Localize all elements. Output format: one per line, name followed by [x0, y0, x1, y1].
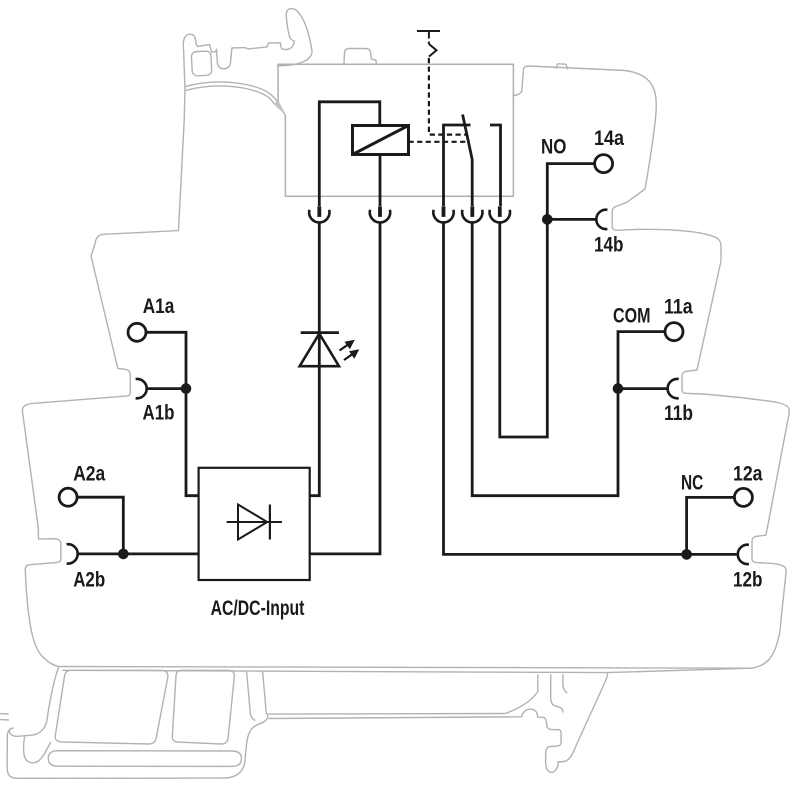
small tab on relay cover top	[344, 49, 376, 65]
DIN rail upper edge left stub	[0, 713, 8, 715]
socket pin 4	[470, 206, 474, 217]
socket arc 1	[309, 210, 329, 223]
wire A1 junction down to rectifier left	[186, 389, 199, 496]
wire A1a to A1 junction	[146, 332, 186, 388]
wire junction to 11b	[618, 387, 667, 390]
wire terminal 3 down to NC junction	[444, 223, 687, 555]
svg-text:11b: 11b	[664, 401, 693, 425]
LED triangle	[300, 334, 339, 367]
socket arc 3	[433, 210, 453, 223]
socket pin 5	[498, 206, 502, 217]
svg-text:A2a: A2a	[73, 462, 106, 486]
wire coil top to terminal pin 1	[319, 102, 380, 206]
terminal socket row	[309, 206, 510, 222]
svg-text:14b: 14b	[594, 233, 624, 257]
junction NO/14b	[542, 214, 553, 225]
wire terminal 2 down to rectifier right	[310, 223, 380, 554]
actuator stem	[428, 31, 430, 39]
left side: A1 tier top edge and side	[22, 231, 178, 667]
bottom block top edge lower line	[63, 670, 608, 672]
wire junction to 14b	[547, 218, 595, 221]
junction A2	[118, 549, 129, 560]
terminal A1b socket	[136, 379, 147, 398]
socket arc 4	[462, 210, 482, 223]
wire coil bottom to terminal pin 2	[379, 155, 382, 207]
DIN rail lower edge left stub	[0, 719, 9, 721]
foot slot 1	[55, 670, 168, 744]
terminal A2b socket	[67, 544, 78, 563]
svg-text:A1a: A1a	[143, 294, 175, 318]
wire 12a to NC junction	[687, 497, 735, 554]
svg-text:11a: 11a	[664, 294, 693, 318]
wire 14a to NO junction	[547, 164, 595, 220]
flange arch upper line	[185, 82, 276, 101]
foot slot 2	[172, 670, 234, 744]
foot hook pocket	[24, 737, 51, 763]
svg-text:12b: 12b	[733, 568, 763, 592]
terminal 12b socket	[738, 545, 749, 564]
relay coil K1	[353, 126, 409, 155]
socket pin 1	[317, 206, 321, 217]
mechanical linkage dashed line vertical	[429, 58, 466, 135]
svg-text:A1b: A1b	[143, 400, 175, 424]
wire terminal 5 down to NO junction	[500, 219, 548, 437]
terminal A2a	[59, 488, 77, 506]
small bump on lobe top	[556, 64, 568, 69]
junction A1	[181, 383, 192, 394]
terminal 14b socket	[596, 210, 607, 229]
top-right lobe of relay cover	[513, 66, 789, 673]
right clamp outer slant edge	[558, 672, 608, 762]
socket pin 3	[442, 206, 446, 217]
contact moving lever (COM)	[463, 115, 473, 207]
LED arrow 2	[344, 353, 355, 360]
terminal 14a	[595, 155, 613, 173]
foot long bottom slot	[48, 751, 241, 767]
DIN-rail foot left block outer contour	[7, 667, 267, 779]
manual test actuator symbol (top)	[417, 31, 440, 57]
relay socket body (gray box)	[278, 64, 513, 196]
contact NC fixed side	[444, 125, 471, 206]
svg-text:NO: NO	[541, 135, 566, 159]
mechanical linkage dashed line from coil	[409, 141, 468, 143]
wire 11a to COM junction	[618, 332, 665, 389]
bottom block top edge upper line	[59, 667, 750, 669]
wire terminal 1 down through LED to rectifier	[310, 223, 320, 496]
wire A2b to junction and to rectifier	[79, 553, 199, 556]
svg-text:COM: COM	[613, 303, 651, 327]
lever pivot wedge	[274, 101, 285, 115]
right clamp inner contour	[544, 717, 562, 772]
DIN rail upper edge	[268, 675, 538, 714]
wire terminal 4 down to COM junction	[472, 223, 618, 496]
housing ejector lever and top-left flange	[179, 9, 312, 231]
flange inner window	[191, 51, 212, 76]
socket arc 2	[370, 210, 390, 223]
DIN rail lower edge with wedge	[269, 709, 544, 718]
actuator bar	[417, 30, 440, 32]
svg-text:A2b: A2b	[73, 567, 105, 591]
junction NC/12b	[681, 549, 692, 560]
LED cathode bar	[301, 331, 339, 334]
right clamp neck lines	[551, 675, 563, 712]
AC/DC input rectifier block	[199, 468, 310, 580]
socket pin 2	[378, 206, 382, 217]
wire junction to 12b	[687, 553, 737, 556]
LED arrow 1	[340, 343, 351, 350]
terminal 11b socket	[668, 379, 679, 398]
foot right inner edge	[247, 673, 255, 721]
svg-text:AC/DC-Input: AC/DC-Input	[211, 596, 305, 620]
svg-text:12a: 12a	[733, 461, 763, 485]
terminal 11a	[665, 323, 683, 341]
LED indicator	[300, 333, 360, 367]
flange arch lower line	[185, 86, 274, 104]
actuator spring zigzag	[429, 44, 437, 57]
wire A1b to junction	[148, 387, 186, 390]
svg-text:NC: NC	[681, 471, 703, 495]
terminal A1a	[128, 323, 146, 341]
junction COM/11b	[613, 383, 624, 394]
contact NO fixed side	[490, 125, 501, 206]
svg-text:14a: 14a	[594, 126, 625, 150]
rectifier diode symbol	[227, 505, 282, 540]
socket arc 5	[490, 210, 510, 223]
terminal 12a	[734, 488, 752, 506]
wire A2a to A2 junction	[77, 497, 124, 554]
